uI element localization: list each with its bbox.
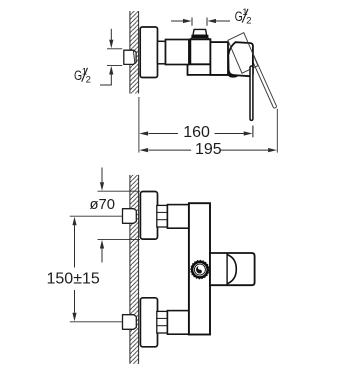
- handle (front view): [210, 253, 255, 285]
- upper connector ribbed: [157, 205, 168, 227]
- svg-text:2: 2: [246, 16, 251, 27]
- cartridge cover: [228, 42, 253, 76]
- top outlet fitting G1/2: [190, 29, 209, 39]
- lower inlet stub: [123, 315, 137, 330]
- dimension G1/2 left (stub size): [100, 29, 122, 85]
- neck pipe: [158, 41, 166, 64]
- escutcheon flange (top view): [140, 27, 157, 78]
- wall (front view): [130, 175, 139, 364]
- body block B: [210, 42, 228, 75]
- label G1/2 top: [235, 7, 252, 27]
- lever open position (thin outline): [250, 53, 277, 108]
- lever closed position: [250, 66, 253, 120]
- upper inlet stub: [123, 209, 137, 224]
- lower connector block: [167, 311, 189, 335]
- upper connector block: [167, 205, 189, 229]
- body base step: [188, 64, 250, 75]
- svg-text:150±15: 150±15: [47, 271, 100, 288]
- svg-text:195: 195: [195, 141, 222, 158]
- upper escutcheon: [140, 192, 157, 240]
- wall (top view): [130, 11, 139, 94]
- union nut: [166, 40, 189, 65]
- label G1/2 left: [74, 66, 91, 85]
- logo medallion: [191, 261, 209, 279]
- lower connector ribbed: [157, 311, 168, 333]
- valve body block: [190, 39, 210, 64]
- inlet stub G1/2 (top view): [124, 50, 136, 64]
- dimension 150 plus-minus 15: [70, 216, 123, 322]
- svg-text:2: 2: [86, 75, 91, 86]
- dimension diameter 70: [98, 168, 141, 263]
- dimension G1/2 top: [171, 18, 230, 26]
- mixer body (front view): [189, 203, 210, 334]
- svg-text:ø70: ø70: [90, 197, 116, 213]
- svg-text:160: 160: [183, 124, 210, 141]
- cover rotated outline (thin): [228, 33, 258, 73]
- outlet nozzle: [229, 74, 238, 77]
- dimension 160: [139, 97, 253, 153]
- dimension 195: [139, 109, 277, 153]
- lower escutcheon: [140, 298, 157, 347]
